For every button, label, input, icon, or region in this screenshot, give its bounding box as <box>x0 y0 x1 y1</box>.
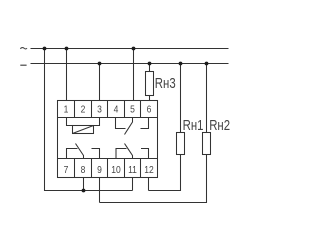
coil body <box>73 126 94 134</box>
svg-text:8: 8 <box>81 164 86 176</box>
relay module outline <box>58 101 158 178</box>
wire: resistor Rн1 down, left to terminal 12 <box>149 155 181 191</box>
wire: bottom rail to terminal 3 <box>99 64 101 101</box>
wire: bottom rail down to resistor Rн1 <box>180 64 182 133</box>
svg-text:6: 6 <box>147 104 152 116</box>
svg-text:Rн3: Rн3 <box>155 75 176 92</box>
wire: top rail to terminal 5 <box>133 49 135 101</box>
wire: bottom rail to resistor Rн3 <box>149 64 151 72</box>
svg-text:1: 1 <box>64 104 69 116</box>
wire: terminal 8 down to bottom bus <box>83 178 85 191</box>
junction: top rail / terminal 1 <box>65 47 69 51</box>
svg-text:2: 2 <box>81 104 86 116</box>
wire: terminal 12 down <box>148 178 150 191</box>
wire: terminal 9 down, crossing bottom bus <box>99 178 101 203</box>
wire: bottom supply rail (~) <box>31 63 229 65</box>
wire: bottom rail down to resistor Rн2 <box>206 64 208 133</box>
junction: bottom bus / terminal 8 <box>82 189 86 193</box>
wire: left bypass from top rail down to bottom bus, ends at terminal 11 <box>45 49 133 191</box>
contact 4-5-6: fixed pin 6 <box>141 118 149 129</box>
svg-text:7: 7 <box>64 164 69 176</box>
resistor Rн3 body <box>146 72 154 96</box>
coil diagonal <box>73 126 94 134</box>
junction: top rail / bypass <box>43 47 47 51</box>
wire: terminal 11 down to bottom bus end <box>132 178 134 191</box>
contact 7-8-9: fixed pin 9 <box>92 149 100 159</box>
junction: bottom rail / Rн3 <box>148 62 152 66</box>
svg-text:5: 5 <box>130 104 135 116</box>
svg-text:Rн2: Rн2 <box>209 116 230 133</box>
svg-text:3: 3 <box>97 104 102 116</box>
wire: resistor Rн3 to terminal 6 <box>149 96 151 101</box>
label - at bottom rail <box>20 64 26 66</box>
junction: bottom rail / Rн2 <box>205 62 209 66</box>
svg-text:4: 4 <box>114 104 119 116</box>
contact 10-11-12: fixed pin 10 <box>116 149 127 159</box>
contact 10-11-12: fixed pin 12 <box>141 149 149 159</box>
wire: top rail to terminal 1 <box>66 49 68 101</box>
label ~ at top rail <box>20 48 27 49</box>
svg-text:9: 9 <box>97 164 102 176</box>
wire: resistor Rн2 down, left to terminal 9 <box>100 155 207 203</box>
terminal numbers 1-6 <box>64 104 152 116</box>
junction: top rail / terminal 5 <box>132 47 136 51</box>
svg-text:11: 11 <box>128 164 137 176</box>
contact 4-5-6: fixed pin 4 <box>116 118 126 129</box>
junction: bottom rail / Rн1 <box>179 62 183 66</box>
resistor Rн2 body <box>203 133 211 155</box>
contact 10-11-12: lever pin 11 <box>125 144 133 159</box>
coil wiring terminal 1 to terminal 3 <box>67 118 100 126</box>
resistor Rн1 body <box>177 133 185 155</box>
svg-text:Rн1: Rн1 <box>183 116 204 133</box>
terminal dividers, bottom row 7-12 <box>74 159 76 178</box>
wire: top supply rail (~) <box>31 48 229 50</box>
contact 7-8-9: lever pin 8 <box>76 144 84 159</box>
junction: bottom rail / terminal 3 <box>98 62 102 66</box>
svg-text:12: 12 <box>144 164 153 176</box>
terminal dividers, top row 1-6 <box>74 101 76 118</box>
terminal numbers 7-12 <box>64 164 154 176</box>
contact 4-5-6: lever pin 5 <box>125 118 133 135</box>
svg-text:10: 10 <box>111 164 120 176</box>
contact 7-8-9: fixed pin 7 <box>67 149 78 159</box>
